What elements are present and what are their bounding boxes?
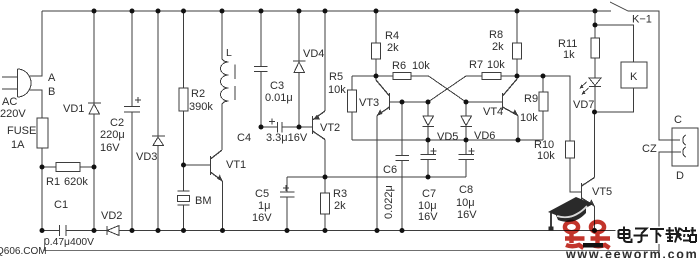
watermark chong chong logo bbox=[565, 222, 610, 248]
arrow VT1 emitter bbox=[217, 175, 223, 182]
arrow VT3 emitter bbox=[377, 109, 383, 116]
arrows VD7 light bbox=[580, 82, 589, 94]
wire bottom rail bbox=[132, 230, 659, 232]
svg-text:C1: C1 bbox=[54, 199, 68, 211]
node VT5 emitter to rail bbox=[592, 228, 597, 233]
wire cross coupling R6 to VT4 base bbox=[429, 76, 467, 102]
diode VD4 bbox=[293, 11, 306, 127]
resistor R10 bbox=[566, 141, 575, 158]
capacitor C6 bbox=[396, 102, 410, 231]
svg-text:VT4: VT4 bbox=[483, 106, 503, 118]
resistor R1 bbox=[42, 166, 56, 168]
svg-text:10k: 10k bbox=[537, 150, 555, 162]
arrow VT4 emitter bbox=[512, 109, 518, 116]
arrow VT2 emitter bbox=[314, 114, 321, 119]
wire VT4 base bbox=[466, 101, 503, 103]
svg-text:620k: 620k bbox=[64, 176, 88, 188]
resistor R9 bbox=[542, 76, 544, 92]
svg-text:C3: C3 bbox=[270, 80, 284, 92]
svg-text:C7: C7 bbox=[422, 188, 436, 200]
wire VT1 base bbox=[184, 164, 211, 166]
svg-text:VD3: VD3 bbox=[136, 151, 157, 163]
wire VT3 base bbox=[390, 101, 429, 103]
wire VT2 base bbox=[299, 126, 313, 128]
svg-text:VD1: VD1 bbox=[63, 103, 84, 115]
resistor R3 bbox=[324, 177, 326, 193]
border line bottom bbox=[45, 239, 661, 251]
connector CZ contact D bbox=[683, 147, 686, 157]
connector CZ contact C bbox=[683, 135, 686, 145]
capacitor C7 bbox=[421, 140, 437, 177]
svg-text:C4: C4 bbox=[237, 132, 251, 144]
svg-text:R3: R3 bbox=[333, 188, 347, 200]
svg-text:VD7: VD7 bbox=[573, 99, 594, 111]
svg-text:220V: 220V bbox=[0, 108, 26, 120]
plus C8 bbox=[469, 148, 475, 154]
svg-text:10k: 10k bbox=[520, 112, 538, 124]
svg-text:10k: 10k bbox=[412, 60, 430, 72]
wire left down to bottom rail bbox=[41, 167, 43, 231]
wire left side A bbox=[30, 11, 42, 76]
svg-text:2k: 2k bbox=[334, 200, 346, 212]
diode VD3 bbox=[152, 11, 165, 231]
svg-text:2k: 2k bbox=[387, 42, 399, 54]
capacitor C4 bbox=[278, 122, 300, 133]
resistor R11 bbox=[594, 11, 596, 38]
fuse FUSE 1A bbox=[37, 118, 48, 148]
svg-text:B: B bbox=[48, 86, 55, 98]
connector CZ box bbox=[672, 128, 698, 166]
svg-text:16V: 16V bbox=[100, 142, 120, 154]
node dots top rail bbox=[40, 9, 598, 234]
char xia bbox=[650, 229, 664, 243]
resistor R6 bbox=[393, 73, 411, 80]
svg-text:R4: R4 bbox=[385, 30, 399, 42]
watermark graduation cap bbox=[548, 197, 593, 231]
svg-text:1μ: 1μ bbox=[258, 200, 270, 212]
capacitor C2 bbox=[124, 11, 140, 231]
resistor R7 bbox=[466, 75, 482, 77]
transistor VT3 bbox=[376, 76, 390, 231]
resistor R5 bbox=[351, 76, 353, 90]
resistor R2 bbox=[183, 11, 185, 88]
switch K-1 bbox=[610, 2, 628, 11]
svg-text:AC: AC bbox=[2, 96, 17, 108]
svg-text:R7: R7 bbox=[469, 59, 483, 71]
svg-text:R2: R2 bbox=[191, 88, 205, 100]
plus C2 bbox=[135, 97, 141, 103]
svg-text:K: K bbox=[630, 71, 638, 83]
core dashes L bbox=[234, 65, 236, 101]
svg-text:C5: C5 bbox=[255, 188, 269, 200]
transistor VT1 bbox=[211, 150, 223, 231]
capacitor C5 bbox=[280, 177, 295, 231]
svg-text:0.01μ: 0.01μ bbox=[265, 92, 293, 104]
svg-text:VD2: VD2 bbox=[101, 210, 122, 222]
svg-text:VT3: VT3 bbox=[359, 97, 379, 109]
svg-text:R9: R9 bbox=[524, 93, 538, 105]
wire collector row right bbox=[517, 76, 570, 141]
svg-text:16V: 16V bbox=[252, 212, 272, 224]
svg-text:VT5: VT5 bbox=[592, 186, 612, 198]
resistor R8 bbox=[516, 11, 518, 43]
plus C4 bbox=[269, 119, 275, 125]
watermark white backing for site name bbox=[616, 227, 697, 245]
transistor VT5 bbox=[582, 112, 595, 231]
diode VD5 bbox=[423, 102, 435, 140]
microphone BM bbox=[178, 165, 190, 231]
svg-text:C8: C8 bbox=[459, 184, 473, 196]
capacitor C3 bbox=[254, 11, 268, 127]
char zi bbox=[634, 229, 649, 243]
wire CZ D down right side bbox=[659, 152, 681, 254]
svg-text:VD5: VD5 bbox=[437, 131, 458, 143]
svg-text:10k: 10k bbox=[487, 59, 505, 71]
svg-text:VT1: VT1 bbox=[226, 159, 246, 171]
capacitor C8 bbox=[459, 140, 475, 177]
node dots bottom rail bbox=[40, 228, 45, 233]
svg-text:10k: 10k bbox=[328, 84, 346, 96]
svg-text:220μ: 220μ bbox=[100, 129, 125, 141]
svg-text:C6: C6 bbox=[383, 164, 397, 176]
svg-text:A: A bbox=[48, 72, 56, 84]
svg-text:C: C bbox=[674, 114, 682, 126]
char dian bbox=[619, 227, 632, 243]
wire flipflop collector row left bbox=[352, 75, 393, 77]
svg-text:R1: R1 bbox=[46, 176, 60, 188]
svg-text:16V: 16V bbox=[457, 209, 477, 221]
svg-text:R6: R6 bbox=[392, 60, 406, 72]
watermark underline bar bbox=[583, 243, 603, 248]
svg-text:D: D bbox=[676, 170, 684, 182]
wire emitter line y177 bbox=[287, 176, 466, 178]
svg-text:16V: 16V bbox=[418, 211, 438, 223]
char zhan bbox=[683, 227, 697, 242]
svg-text:10μ: 10μ bbox=[456, 197, 475, 209]
wire fuse to node bbox=[41, 148, 43, 167]
wire left side B bbox=[30, 90, 42, 118]
wire top rail right bbox=[628, 11, 680, 140]
relay K bbox=[621, 62, 647, 88]
svg-text:1k: 1k bbox=[563, 49, 575, 61]
diode VD7 LED bbox=[589, 78, 601, 112]
wire emitter line y140 bbox=[352, 139, 543, 141]
plus C7 bbox=[431, 148, 437, 154]
transistor VT2 (PNP) bbox=[313, 11, 326, 177]
transistor VT4 bbox=[503, 76, 519, 140]
char zai bbox=[666, 227, 683, 243]
capacitor C1 bbox=[42, 225, 94, 236]
svg-text:L: L bbox=[226, 47, 232, 59]
svg-text:VT2: VT2 bbox=[320, 122, 340, 134]
inductor L bbox=[221, 11, 229, 150]
resistor R4 bbox=[375, 11, 377, 43]
svg-text:0.022μ: 0.022μ bbox=[383, 185, 395, 219]
svg-text:C2: C2 bbox=[110, 117, 124, 129]
svg-text:R8: R8 bbox=[489, 29, 503, 41]
svg-text:Q606.COM: Q606.COM bbox=[0, 246, 47, 257]
plus C5 bbox=[283, 185, 289, 191]
svg-text:K−1: K−1 bbox=[632, 14, 652, 26]
svg-text:VD6: VD6 bbox=[474, 130, 495, 142]
watermark text dianzi xiazaizhan bbox=[619, 227, 697, 244]
svg-text:0.47μ400V: 0.47μ400V bbox=[44, 237, 94, 248]
plug AC 220V bbox=[2, 69, 31, 97]
wire top rail bbox=[42, 10, 611, 12]
wire K bottom branch bbox=[595, 88, 634, 112]
svg-text:www.eeworm.com: www.eeworm.com bbox=[565, 248, 698, 258]
wire C4 row left bbox=[261, 126, 278, 128]
wire K top branch bbox=[595, 25, 634, 62]
arrow VT5 emitter bbox=[589, 199, 595, 206]
diode VD1 bbox=[88, 11, 101, 231]
svg-text:1A: 1A bbox=[11, 139, 25, 151]
svg-text:2k: 2k bbox=[492, 41, 504, 53]
svg-text:BM: BM bbox=[195, 195, 212, 207]
wire cross coupling R7 to VT3 base bbox=[428, 76, 466, 102]
svg-text:FUSE: FUSE bbox=[7, 125, 36, 137]
svg-text:R5: R5 bbox=[329, 71, 343, 83]
diode VD2 bbox=[94, 226, 132, 236]
svg-text:390k: 390k bbox=[189, 101, 213, 113]
svg-text:3.3μ16V: 3.3μ16V bbox=[266, 132, 308, 144]
diode VD6 bbox=[461, 102, 473, 140]
node dots middle bbox=[40, 165, 45, 170]
svg-text:VD4: VD4 bbox=[303, 48, 324, 60]
svg-text:CZ: CZ bbox=[642, 143, 657, 155]
